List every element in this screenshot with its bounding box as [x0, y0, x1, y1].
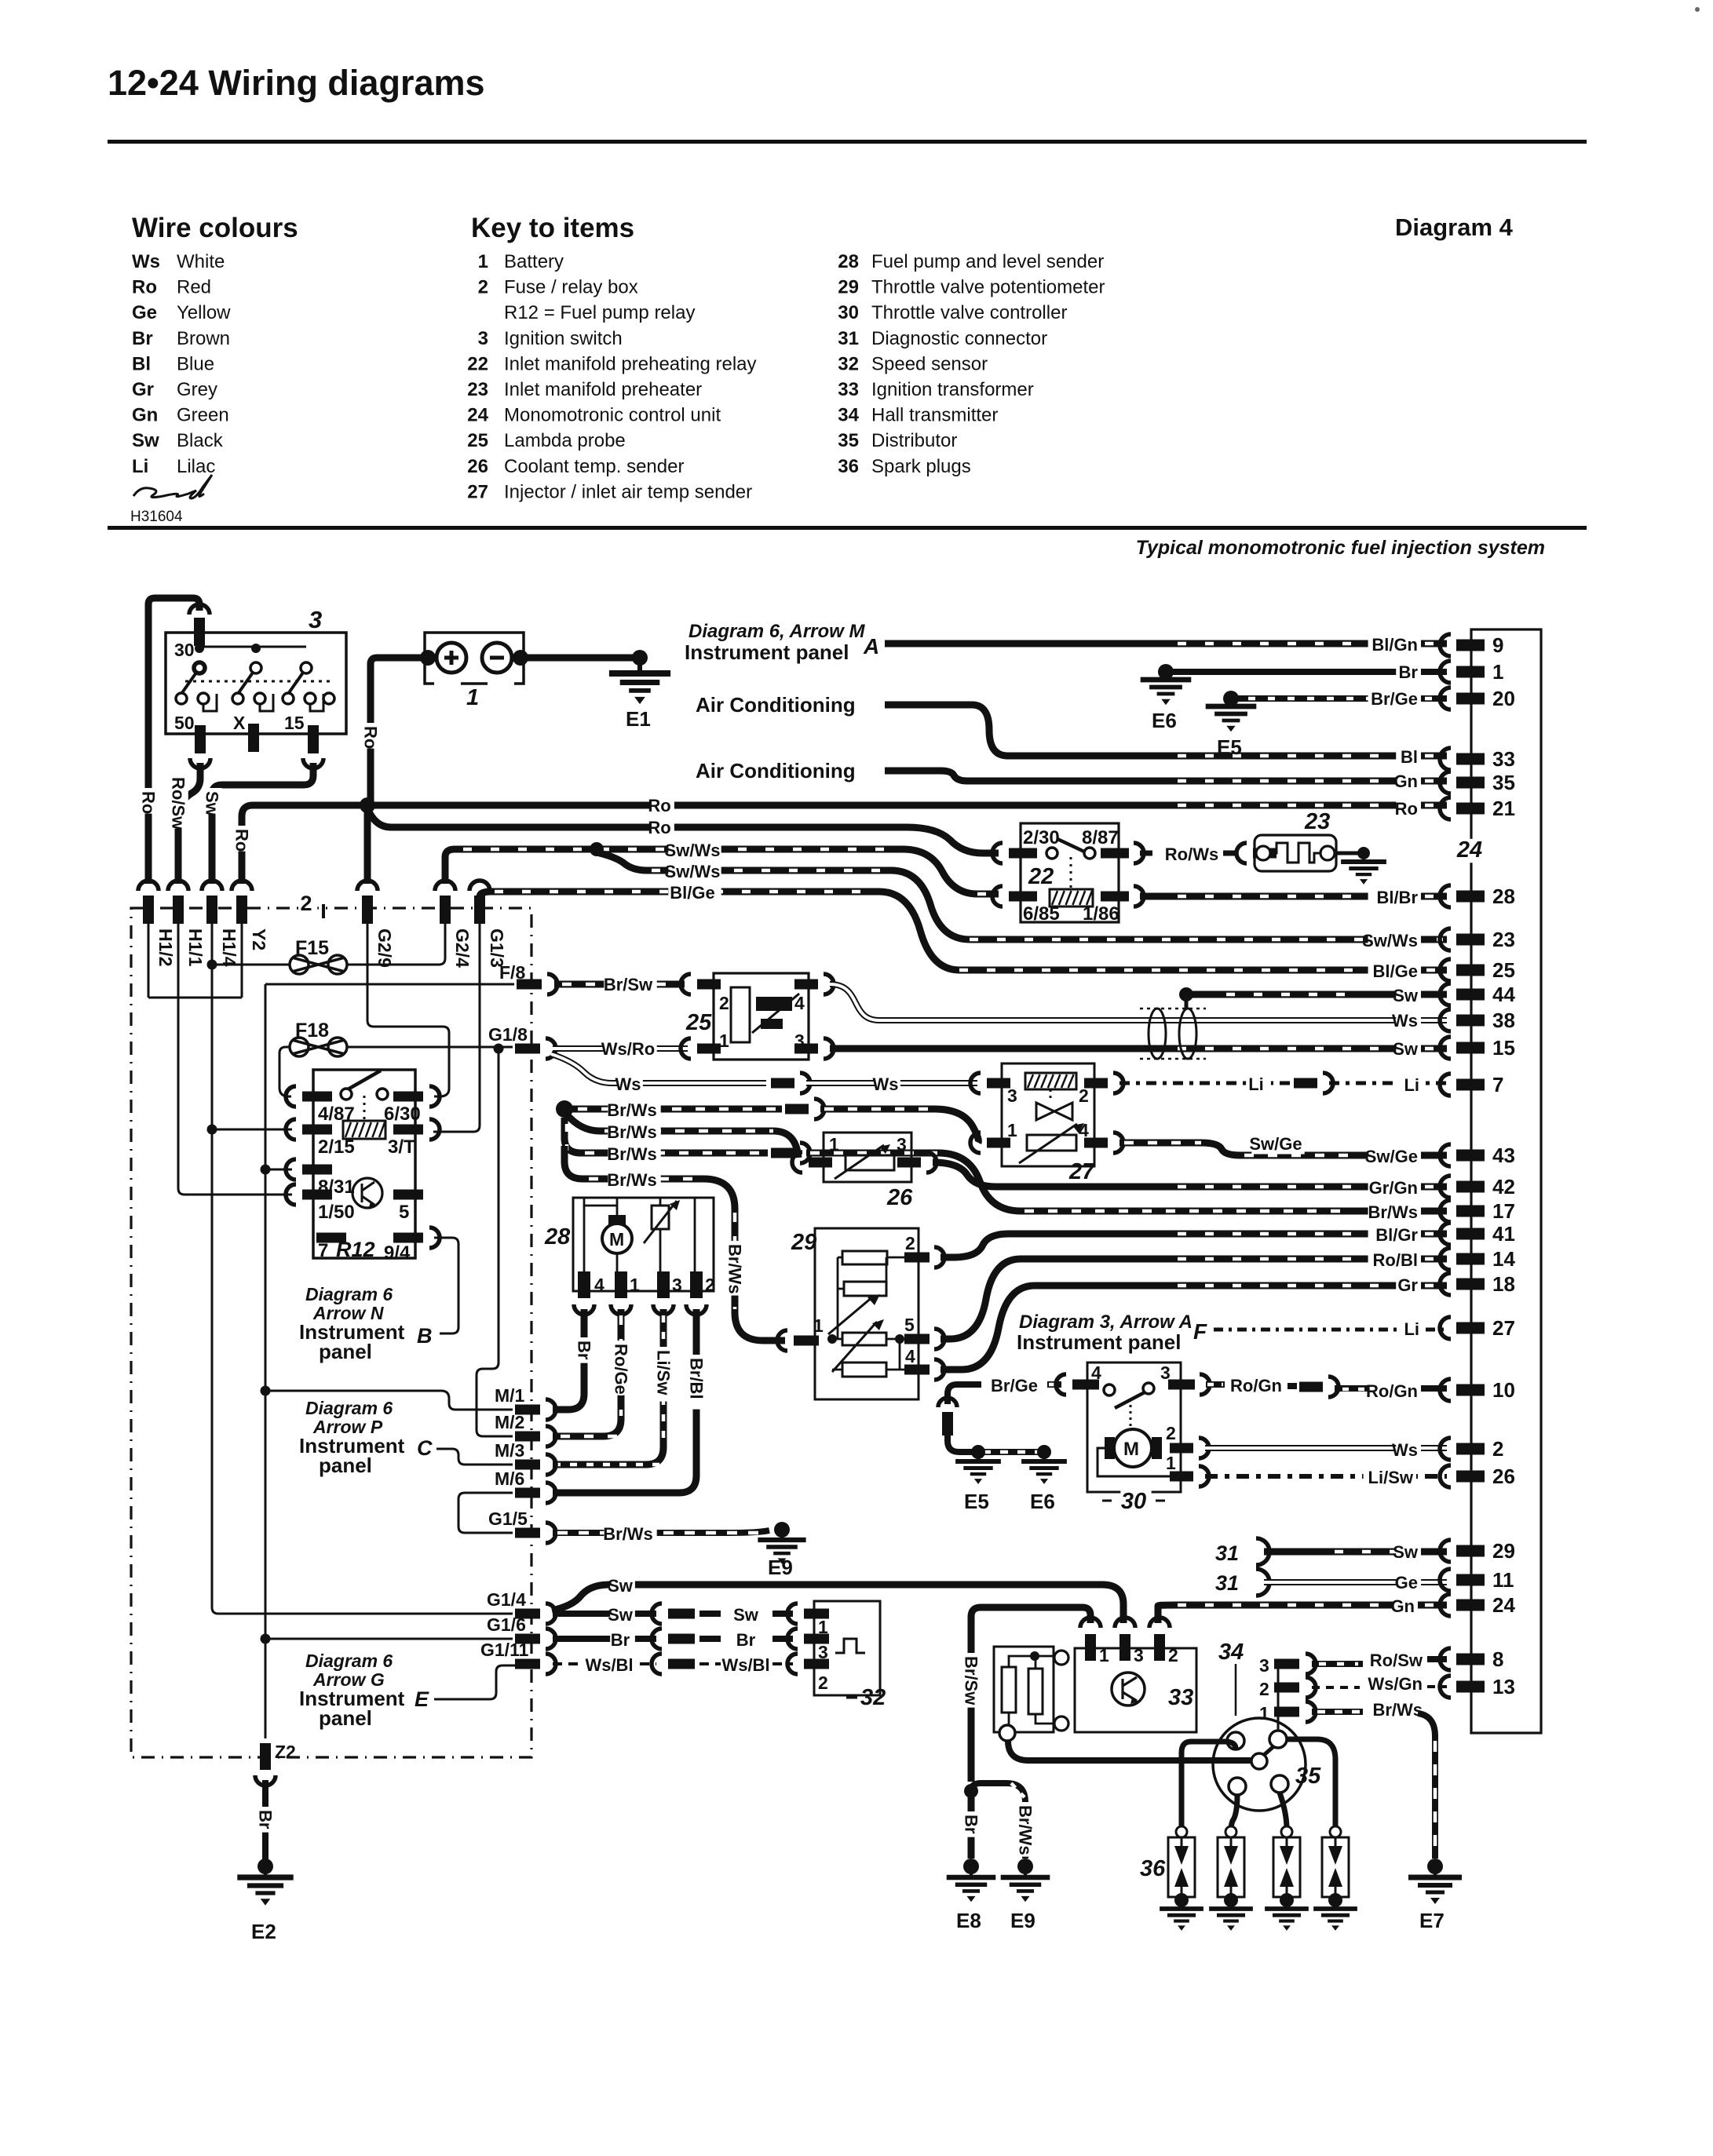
label Bl/Ge row3	[668, 885, 721, 903]
29 node dots	[827, 1334, 837, 1344]
wire Sw 25 pin3 to pin15	[830, 1045, 1447, 1052]
relay 22 coil dotted link	[1070, 857, 1072, 889]
wire junction to R12 8/31	[265, 1169, 292, 1171]
svg-text:X: X	[233, 713, 246, 733]
svg-text:Li/Sw: Li/Sw	[1368, 1468, 1414, 1487]
label Br vertical E8	[961, 1811, 981, 1837]
wire Br/Bl 28 pin2 to M/6	[553, 1309, 696, 1493]
27 valve symbol	[1036, 1103, 1072, 1120]
svg-text:27: 27	[467, 481, 488, 502]
24 pin 15	[1440, 1037, 1451, 1059]
svg-text:6/30: 6/30	[384, 1104, 421, 1125]
wire Ro/Ws 8/87 to 23	[1140, 851, 1160, 856]
label G1/3	[487, 925, 508, 972]
svg-text:8: 8	[1492, 1647, 1503, 1671]
wire Gr/Gn 26 to pin42	[933, 1162, 1447, 1187]
connector H1/2	[138, 881, 159, 891]
svg-text:Gn: Gn	[1393, 772, 1418, 791]
svg-text:Li: Li	[1404, 1319, 1419, 1339]
switch blades	[181, 673, 303, 694]
relay R12 box	[313, 1070, 415, 1258]
R12 pin 7	[316, 1233, 346, 1243]
label H1/1	[185, 925, 206, 972]
svg-text:Green: Green	[177, 405, 229, 426]
label Ws/Ro	[604, 1041, 656, 1059]
svg-text:Ws/Bl: Ws/Bl	[585, 1655, 633, 1675]
svg-text:Ws/Bl: Ws/Bl	[721, 1655, 769, 1675]
wire junction to M/1	[265, 1391, 513, 1410]
wire Br Z2 to E2	[262, 1780, 268, 1860]
svg-text:Diagram 6, Arrow M: Diagram 6, Arrow M	[688, 621, 866, 642]
R12 pin 5	[393, 1190, 423, 1200]
label Y2	[249, 925, 270, 952]
svg-text:2: 2	[478, 277, 488, 298]
HT lead to plug1	[1182, 1742, 1236, 1829]
ground E9 lower	[1017, 1859, 1033, 1874]
node Ro junction	[360, 797, 375, 813]
svg-text:Sw/Ws: Sw/Ws	[665, 862, 721, 881]
label Sw/Ge pin43	[1368, 1148, 1421, 1166]
battery plus terminal	[436, 643, 466, 673]
label Bl pin33	[1396, 749, 1421, 767]
svg-text:7: 7	[1492, 1073, 1503, 1096]
svg-text:1: 1	[813, 1315, 824, 1336]
footer rule	[108, 526, 1587, 530]
svg-text:20: 20	[1492, 687, 1515, 710]
svg-text:Br/Ws: Br/Ws	[1016, 1805, 1035, 1855]
wire Ws 30 pin2 to pin2	[1205, 1445, 1447, 1451]
35 cap contacts	[1227, 1732, 1244, 1749]
svg-text:C: C	[417, 1436, 433, 1460]
34 pin2	[1274, 1683, 1299, 1693]
ground E6 lower	[1037, 1445, 1051, 1459]
svg-text:Li: Li	[1248, 1074, 1264, 1094]
label Br/Ws pin17	[1368, 1204, 1421, 1222]
svg-text:Instrument panel: Instrument panel	[685, 640, 849, 664]
svg-text:Br/Ws: Br/Ws	[1372, 1700, 1423, 1720]
svg-text:Wire colours: Wire colours	[132, 213, 298, 243]
svg-text:2: 2	[1259, 1679, 1269, 1699]
svg-text:Gr/Gn: Gr/Gn	[1369, 1178, 1418, 1198]
svg-text:Br: Br	[611, 1630, 630, 1650]
connector 27 pin1 input	[970, 1133, 981, 1153]
connector Br/Ge vertical	[938, 1398, 957, 1407]
label Br/Ge pin20	[1368, 691, 1421, 709]
wire Li/Sw 28 pin3 to M/3	[553, 1309, 663, 1465]
wire fusebox trunk F/8 to Z2	[265, 984, 267, 1738]
svg-text:Coolant temp. sender: Coolant temp. sender	[504, 456, 684, 477]
33 transistor symbol	[1112, 1673, 1145, 1705]
29 resistor 2	[844, 1282, 886, 1296]
label Li pin27	[1397, 1321, 1423, 1339]
svg-text:10: 10	[1492, 1378, 1515, 1402]
fuse box 2 label	[300, 893, 318, 915]
svg-text:1: 1	[466, 685, 479, 710]
svg-text:30: 30	[838, 302, 859, 323]
25 pin4 stub	[794, 980, 818, 990]
svg-text:1: 1	[1259, 1703, 1269, 1724]
wire Br/Ge to grounds	[948, 1436, 973, 1452]
wire battery to E1	[517, 655, 640, 662]
wire Ws 25 pin4 to pin38	[830, 984, 1447, 1020]
svg-text:H1/4: H1/4	[219, 928, 239, 967]
svg-text:5: 5	[399, 1202, 409, 1223]
wire Br 28 pin4 to M/1	[553, 1309, 584, 1410]
svg-text:24: 24	[467, 405, 488, 426]
34 leader line	[1235, 1664, 1237, 1716]
svg-text:Br/Ws: Br/Ws	[1368, 1202, 1418, 1222]
24 pin 33	[1440, 748, 1451, 770]
svg-text:M/2: M/2	[495, 1412, 524, 1432]
wire G2/9 inner to R12 6/30	[367, 924, 449, 1096]
ground E7	[1427, 1859, 1443, 1874]
svg-text:4: 4	[594, 1275, 604, 1295]
svg-text:24: 24	[1456, 837, 1482, 863]
svg-text:2/15: 2/15	[318, 1136, 355, 1158]
wire Ro node to Y2	[242, 805, 371, 884]
33 primary windings	[1002, 1667, 1016, 1713]
24 pin 24	[1440, 1594, 1451, 1616]
svg-text:Monomotronic control unit: Monomotronic control unit	[504, 405, 721, 426]
label Sw mid2	[736, 1607, 761, 1625]
wire F18 to G1/8	[347, 1046, 513, 1049]
wire H1/1 inner to R12 1/50	[178, 924, 292, 1195]
svg-text:Z2: Z2	[275, 1742, 296, 1762]
svg-text:43: 43	[1492, 1144, 1515, 1167]
fuel pump 28 box	[573, 1198, 714, 1291]
R12 coil	[343, 1121, 385, 1139]
svg-text:E6: E6	[1152, 709, 1177, 732]
svg-text:29: 29	[791, 1230, 816, 1255]
34 pin3	[1274, 1659, 1299, 1669]
ground spark plug 1	[1174, 1893, 1189, 1907]
33 pin3	[1115, 1618, 1135, 1628]
label Sw long	[610, 1578, 635, 1596]
wire Ro/Sw terminal50 to H1/1	[178, 763, 200, 884]
35 rotor arm	[1264, 1744, 1277, 1755]
label Br/Bl vertical	[686, 1355, 707, 1410]
label Br/Ge 30	[990, 1377, 1043, 1395]
node H1/4 2/15 junction	[207, 1125, 217, 1135]
svg-text:Ro/Gn: Ro/Gn	[1230, 1376, 1282, 1395]
svg-text:9: 9	[1492, 633, 1503, 657]
svg-text:26: 26	[1492, 1465, 1515, 1488]
27 air temp coil	[1025, 1073, 1076, 1089]
svg-text:Sw: Sw	[1393, 1542, 1419, 1562]
svg-text:18: 18	[1492, 1272, 1515, 1296]
svg-text:Sw/Ws: Sw/Ws	[665, 841, 721, 860]
wire Sw G1/4 to 32 pin1	[553, 1611, 656, 1617]
relay 22 pin 2/30	[992, 843, 1003, 863]
svg-text:2: 2	[1079, 1085, 1089, 1106]
label Bl/Gn pin9	[1368, 637, 1421, 655]
svg-text:M: M	[1123, 1439, 1139, 1460]
label Br/Ws r3	[608, 1146, 660, 1164]
svg-text:Br/Ws: Br/Ws	[607, 1122, 657, 1142]
svg-text:33: 33	[1168, 1685, 1193, 1710]
svg-text:1: 1	[1007, 1120, 1017, 1140]
svg-text:G2/9: G2/9	[374, 928, 395, 968]
24 pin 35	[1440, 772, 1451, 793]
svg-text:Ignition transformer: Ignition transformer	[871, 379, 1034, 400]
wire Bl/Br 1/86 to pin28	[1140, 893, 1447, 900]
svg-text:32: 32	[860, 1685, 886, 1710]
connector G1/8	[515, 1044, 540, 1054]
wire Br G1/6 to 32 pin3	[553, 1636, 656, 1642]
svg-text:Ro/Gn: Ro/Gn	[1366, 1381, 1418, 1401]
wire Bl AC to pin33	[885, 705, 1447, 756]
wire R12 9/4 to B	[434, 1238, 458, 1333]
svg-text:Yellow: Yellow	[177, 302, 231, 323]
relay 22 coil	[1050, 889, 1093, 907]
svg-text:panel: panel	[319, 1706, 372, 1730]
wire Gr 29 pin4 to pin18	[941, 1286, 1447, 1370]
label Sw/Ws pin23	[1368, 932, 1421, 950]
wire Sw/Ge 27 pin4 to pin43	[1119, 1143, 1447, 1155]
svg-text:Ws: Ws	[132, 251, 160, 272]
wire Bl/Gr 29 pin2 to pin41	[941, 1234, 1447, 1257]
connector F/8	[517, 980, 542, 990]
wire Ro node to G2/9	[364, 805, 371, 884]
wire Sw/Ws branch to pin23	[597, 852, 1447, 939]
wire Gn AC to pin35	[885, 771, 1447, 781]
svg-text:1: 1	[478, 251, 488, 272]
svg-text:Ro/Ge: Ro/Ge	[612, 1344, 631, 1395]
ignition transformer 33 box	[1075, 1648, 1196, 1732]
label Gr/Gn pin42	[1368, 1180, 1421, 1198]
svg-text:Typical monomotronic fuel inje: Typical monomotronic fuel injection syst…	[1136, 537, 1545, 559]
R12 coil dotted link	[363, 1096, 366, 1121]
wire Gn 33 pin2 to pin24	[1158, 1605, 1447, 1623]
relay 22 box	[1021, 823, 1119, 922]
svg-text:Air Conditioning: Air Conditioning	[696, 759, 856, 783]
connector 27 pin3 input	[970, 1073, 981, 1093]
24 pin 42	[1440, 1176, 1451, 1198]
svg-text:E9: E9	[768, 1556, 793, 1579]
svg-text:M/1: M/1	[495, 1385, 525, 1406]
svg-text:Sw: Sw	[608, 1605, 634, 1625]
svg-text:Throttle valve controller: Throttle valve controller	[871, 302, 1067, 323]
wire Sw G1/4 riser to 33 pin3	[552, 1585, 1123, 1623]
svg-text:3: 3	[309, 606, 322, 633]
svg-text:3: 3	[1007, 1085, 1017, 1106]
svg-text:25: 25	[685, 1010, 712, 1035]
ground E9 upper	[774, 1522, 790, 1538]
svg-text:Ws: Ws	[615, 1074, 641, 1094]
24 pin 29	[1440, 1540, 1451, 1562]
node Br/Ws junction	[556, 1100, 573, 1118]
svg-text:Sw: Sw	[203, 791, 222, 817]
34 pin1	[1274, 1707, 1299, 1717]
R12 pin 9/4	[393, 1233, 423, 1243]
svg-text:M/6: M/6	[495, 1468, 524, 1489]
30 brush link wire	[1098, 1448, 1170, 1476]
svg-text:34: 34	[1218, 1640, 1244, 1665]
svg-text:Ge: Ge	[1395, 1573, 1418, 1592]
30 switch contacts	[1104, 1384, 1115, 1395]
label Ro pin21	[1396, 801, 1421, 819]
svg-text:Diagram 6: Diagram 6	[305, 1398, 393, 1418]
svg-text:8/87: 8/87	[1082, 827, 1119, 848]
svg-text:Brown: Brown	[177, 328, 230, 349]
wire Ro/Sw 34 pin3 to pin8	[1312, 1661, 1363, 1667]
ground E2	[257, 1859, 273, 1874]
svg-text:23: 23	[1492, 928, 1515, 951]
svg-text:1: 1	[719, 1031, 729, 1051]
wire Sw 31 to pin29	[1264, 1549, 1447, 1556]
svg-text:Bl/Br: Bl/Br	[1376, 888, 1418, 907]
svg-text:29: 29	[1492, 1539, 1515, 1563]
label Gn pin35	[1396, 773, 1421, 791]
svg-text:1/86: 1/86	[1083, 903, 1119, 925]
svg-text:Li: Li	[132, 456, 148, 477]
injector 27 box	[1002, 1063, 1094, 1166]
R12 pin 3/T	[393, 1125, 423, 1135]
label Sw/Ge mid	[1251, 1136, 1304, 1154]
connector Ws mid pair	[771, 1078, 794, 1089]
svg-text:G1/5: G1/5	[488, 1508, 528, 1529]
label Gr pin18	[1396, 1277, 1421, 1295]
svg-text:33: 33	[1492, 747, 1515, 771]
svg-text:G1/11: G1/11	[480, 1640, 529, 1660]
label Bl/Br pin28	[1368, 889, 1421, 907]
svg-text:Inlet manifold preheater: Inlet manifold preheater	[504, 379, 702, 400]
spark plug 2	[1225, 1826, 1236, 1837]
label Ro battery drop	[360, 723, 381, 749]
svg-text:2: 2	[1492, 1437, 1503, 1461]
svg-text:28: 28	[1492, 885, 1515, 908]
throttle controller 30 box	[1087, 1363, 1181, 1492]
svg-text:M/3: M/3	[495, 1440, 524, 1461]
signature	[133, 475, 212, 498]
29 internal links	[838, 1257, 904, 1339]
wire Br/Ws branch2 to 26 pin1	[567, 1114, 798, 1158]
33 primary bottom link	[1009, 1713, 1056, 1727]
svg-text:Ge: Ge	[132, 302, 157, 323]
svg-text:Li/Sw: Li/Sw	[654, 1350, 674, 1395]
svg-text:Blue: Blue	[177, 353, 214, 374]
R12 transistor symbol	[352, 1178, 382, 1208]
svg-text:31: 31	[1215, 1541, 1239, 1565]
wire junction to G1/6	[265, 1638, 513, 1640]
fuse F15	[212, 964, 290, 966]
fuse F18	[290, 1038, 309, 1056]
wire Br/Ws branch1 to 27 pin1	[570, 1106, 782, 1113]
HT lead to plug2	[1231, 1795, 1237, 1829]
24 pin 26	[1440, 1465, 1451, 1487]
25 pin3 stub	[794, 1044, 818, 1054]
wire Br/Sw to 33 pin1 and E8	[971, 1607, 1090, 1782]
wire F/8 feed line	[265, 983, 514, 986]
svg-text:E2: E2	[251, 1920, 276, 1943]
svg-text:11: 11	[1492, 1568, 1514, 1592]
R12 contact switch	[341, 1089, 352, 1100]
svg-text:44: 44	[1492, 983, 1515, 1006]
connector 29 pin1 input	[777, 1330, 787, 1351]
switch contact drop wires	[203, 694, 323, 711]
HT lead to plug3	[1280, 1793, 1287, 1829]
label Ro/Sw vertical	[168, 774, 188, 829]
svg-text:panel: panel	[319, 1454, 372, 1477]
svg-text:H1/1: H1/1	[185, 928, 206, 967]
28 pin 2	[690, 1271, 703, 1298]
svg-text:F15: F15	[295, 937, 329, 959]
svg-text:6/85: 6/85	[1023, 903, 1060, 925]
svg-text:Ro/Ws: Ro/Ws	[1165, 845, 1218, 864]
svg-text:Y2: Y2	[249, 928, 269, 950]
svg-text:2: 2	[719, 993, 729, 1013]
svg-text:22: 22	[467, 353, 488, 374]
label Ws branch	[618, 1076, 643, 1094]
ground E5 lower	[971, 1445, 985, 1459]
svg-text:15: 15	[284, 713, 305, 733]
svg-text:G1/6: G1/6	[487, 1614, 526, 1635]
svg-text:Key to items: Key to items	[471, 213, 634, 243]
svg-text:4: 4	[905, 1346, 915, 1366]
wire Li F to pin27	[1214, 1328, 1447, 1332]
svg-text:4: 4	[1091, 1363, 1101, 1383]
29 resistor 3	[842, 1333, 886, 1345]
svg-text:Sw/Ge: Sw/Ge	[1365, 1147, 1418, 1166]
wire M/6 to G1/5 bridge	[458, 1493, 513, 1533]
svg-text:R12 = Fuel pump relay: R12 = Fuel pump relay	[504, 302, 695, 323]
ground spark plug 3	[1280, 1893, 1294, 1907]
node G1/6 junction	[261, 1634, 271, 1644]
svg-text:Br/Bl: Br/Bl	[687, 1358, 707, 1399]
svg-text:2: 2	[705, 1275, 715, 1295]
wire Br/Sw F/8 to 25 pin2	[554, 981, 685, 988]
wire HT 33 to distributor 35	[1008, 1741, 1256, 1760]
label Ge pin11	[1396, 1574, 1421, 1592]
27 variable resistor	[1027, 1135, 1076, 1151]
connector 25 pin2	[681, 974, 691, 994]
29 resistor top	[842, 1251, 887, 1264]
svg-text:Ro/Bl: Ro/Bl	[1373, 1250, 1418, 1270]
label Br/Ws r2	[608, 1124, 660, 1142]
24 pin 1	[1440, 661, 1451, 683]
24 pin 23	[1440, 928, 1451, 950]
svg-text:34: 34	[838, 405, 859, 426]
node 8/31 junction	[261, 1165, 271, 1175]
svg-text:Injector / inlet air temp send: Injector / inlet air temp sender	[504, 481, 752, 502]
24 pin 25	[1440, 959, 1451, 981]
relay 22 pin 8/87	[1101, 848, 1129, 859]
connector 23 input	[1236, 843, 1247, 863]
header rule	[108, 140, 1587, 144]
svg-text:31: 31	[838, 328, 859, 349]
svg-text:1: 1	[1166, 1453, 1176, 1473]
scan speck	[1695, 7, 1700, 12]
svg-text:G1/4: G1/4	[487, 1589, 526, 1610]
wire Br/Ws 34 pin1 to E7	[1312, 1709, 1363, 1715]
svg-text:Gr: Gr	[1397, 1275, 1418, 1295]
connector G2/4	[435, 881, 455, 891]
svg-text:Diagram 4: Diagram 4	[1395, 213, 1514, 241]
connector G1/3	[469, 881, 490, 891]
wire Ws to 27 pin3	[806, 1080, 977, 1086]
24 pin 43	[1440, 1144, 1451, 1166]
control unit 24 label	[1456, 839, 1487, 863]
svg-text:Diagram 6: Diagram 6	[305, 1284, 393, 1304]
svg-text:28: 28	[544, 1224, 571, 1249]
wire Ro/Bl 29 pin5 to pin14	[941, 1259, 1447, 1339]
svg-text:Br/Ws: Br/Ws	[725, 1244, 745, 1294]
wire G1/8 junction to M/2	[477, 1049, 513, 1436]
label Ro vertical Y2	[232, 826, 252, 852]
svg-text:G1/8: G1/8	[488, 1024, 528, 1045]
svg-text:Ro: Ro	[648, 818, 670, 837]
label H1/4	[219, 925, 240, 972]
